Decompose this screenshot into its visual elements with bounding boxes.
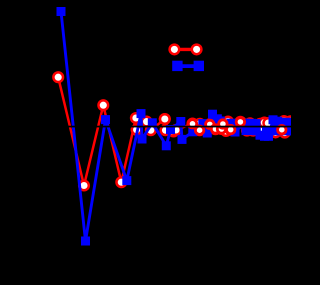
black horizontal reference line (occludes markers) — [0, 126, 291, 128]
blue series polyline — [61, 12, 292, 242]
legend blue entry: line with square markers — [172, 61, 204, 71]
blue series markers (filled squares) — [57, 7, 297, 246]
legend red entry: line with circle markers — [170, 45, 202, 55]
red markers drawn above blue series — [160, 114, 170, 124]
small red markers drawn above blue series (dense band) — [188, 118, 286, 135]
red series markers (circles, white fill, red edge) — [53, 72, 295, 190]
red series polyline — [58, 77, 290, 185]
